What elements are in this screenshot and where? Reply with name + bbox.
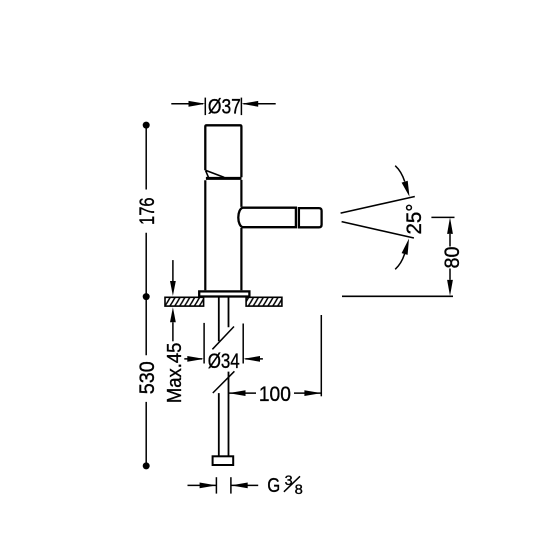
dot top [143,122,150,129]
aerator [299,208,322,227]
dimension Max.45 lower line [172,322,174,341]
dimension Max.45 arrowhead down [170,281,176,296]
spout angle lower line [342,222,414,238]
dot bottom [143,462,150,469]
supply pipe [219,297,229,456]
dimension G3/8 arrowhead left [200,483,217,489]
faucet body [205,180,241,290]
dimension 100 arrowhead right [304,390,321,396]
dimension 80 top reference line [431,216,454,218]
dimension G3/8 tick left [215,477,217,493]
dimension 100 arrowhead left [229,390,246,396]
dimension Ø34 extension line left [203,323,205,364]
dimension 80 arrowhead down [447,280,453,296]
svg-text:G: G [267,475,280,497]
dimension Ø34 extension line right [242,324,244,364]
dimension 100 extension line [320,315,322,396]
faucet handle [205,125,241,177]
hose connector nut [213,456,234,465]
dimension Ø34 arrowhead right [243,356,260,362]
pipe break mark lower [213,371,235,393]
dimension 100 tail left [229,392,256,394]
dimension line 530 [145,297,147,466]
dimension Ø37 extension tick left [204,98,206,116]
spout angle upper arrowhead [402,181,410,197]
dimension Ø34 tail left [184,358,202,360]
dimension Ø37 tail left [171,103,203,105]
spout angle lower arrowhead [402,239,409,255]
svg-text:Ø37: Ø37 [208,94,241,118]
svg-text:8: 8 [295,482,303,497]
svg-text:176: 176 [135,197,159,225]
dimension Ø34 arrowhead left [187,356,204,362]
dimension 100 tail right [294,392,321,394]
dimension Ø34 tail right [245,358,263,360]
dimension G3/8 tick right [230,477,232,493]
spout [238,208,296,228]
dimension 80 upper line [449,234,451,247]
dimension line 176 [145,125,147,297]
pipe break mark upper [212,327,234,350]
dimension Ø37 arrowhead left [189,101,206,107]
dimension Ø37 tail right [244,103,276,105]
svg-text:Max.45: Max.45 [164,343,186,404]
countertop left section [165,297,204,306]
spout angle upper arc leader [395,166,405,182]
spout angle upper line [341,197,415,214]
spout angle lower arc leader [395,254,404,269]
svg-text:530: 530 [135,361,159,394]
handle bottom thick line [206,177,242,180]
dimension 80 arrowhead up [447,217,453,234]
dimension Max.45 arrowhead up [170,307,176,322]
svg-text:3: 3 [285,473,293,488]
svg-text:25°: 25° [402,204,426,235]
dimension G3/8 arrowhead right [231,483,248,489]
dimension Ø37 arrowhead right [241,101,258,107]
dot middle [143,293,150,300]
counter reference line right [342,295,453,297]
dimension G3/8 tail right [231,484,258,486]
countertop right section [246,297,282,306]
svg-text:80: 80 [440,246,464,268]
dimension 80 lower line [449,269,451,280]
dimension Max.45 upper line [172,260,174,282]
svg-text:100: 100 [259,382,291,406]
base flange [199,291,249,296]
dimension Ø37 extension tick right [240,98,242,116]
svg-text:Ø34: Ø34 [208,349,240,373]
dimension G3/8 tail left [188,484,217,486]
handle lever slot wedge [205,170,224,177]
